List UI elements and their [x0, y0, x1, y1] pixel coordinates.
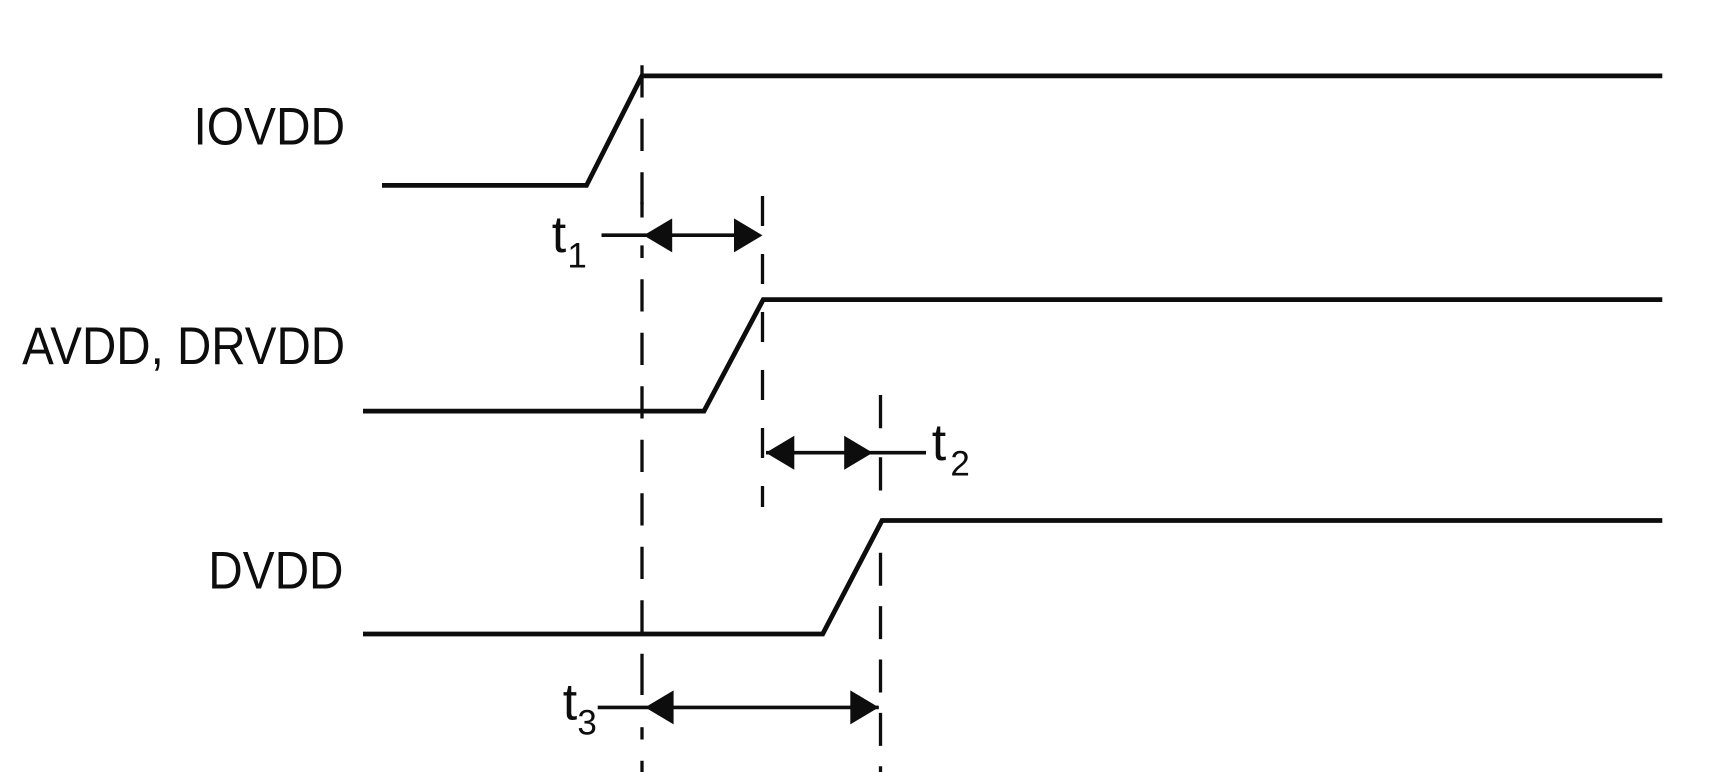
svg-text:1: 1 [567, 237, 586, 276]
svg-text:2: 2 [950, 444, 969, 483]
svg-text:AVDD, DRVDD: AVDD, DRVDD [22, 317, 345, 376]
svg-text:t: t [932, 414, 947, 472]
svg-text:DVDD: DVDD [208, 541, 343, 600]
svg-text:3: 3 [577, 703, 596, 742]
svg-text:IOVDD: IOVDD [194, 98, 346, 157]
svg-text:t: t [563, 674, 578, 732]
svg-text:t: t [552, 206, 567, 264]
